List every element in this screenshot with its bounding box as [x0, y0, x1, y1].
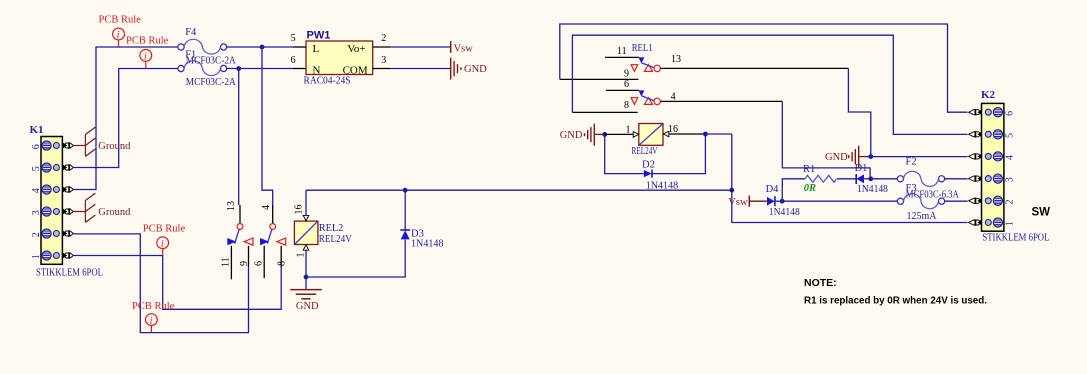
svg-text:8: 8: [624, 100, 629, 111]
REL1 contact 1 (pins 11-13-9): [560, 57, 661, 79]
svg-text:D4: D4: [766, 184, 780, 195]
REL2 pin 1: [303, 245, 309, 278]
K2 pin 4 arrow: [969, 153, 982, 159]
REL2 contact1 pin 11 stub: [230, 246, 232, 279]
svg-text:6: 6: [624, 79, 629, 90]
svg-text:PW1: PW1: [307, 30, 331, 42]
svg-text:i: i: [150, 316, 153, 327]
REL2 contact2 pin 6 stub: [263, 246, 265, 278]
svg-text:5: 5: [1005, 133, 1016, 138]
PW1 pin 2 (Vo+): [373, 46, 390, 48]
svg-text:Vsw: Vsw: [454, 43, 474, 54]
svg-text:F2: F2: [906, 156, 917, 167]
svg-text:D1: D1: [855, 163, 868, 174]
svg-text:REL24V: REL24V: [319, 234, 352, 245]
wire Vsw vertical (REL1 pin16 to K2 pin1): [732, 134, 968, 223]
REL2 contact 2 (pins 4-6-8): [260, 205, 286, 245]
svg-text:3: 3: [31, 210, 42, 215]
svg-text:8: 8: [277, 261, 288, 266]
svg-text:L: L: [313, 43, 320, 55]
svg-text:Ground: Ground: [98, 207, 131, 218]
relay coil REL1 body: [639, 124, 663, 146]
svg-text:GND: GND: [825, 152, 848, 163]
svg-text:NOTE:: NOTE:: [804, 277, 837, 289]
connector K1 body: [41, 137, 62, 265]
wire net L down to REL2 contact 2 common pin 4: [262, 47, 273, 205]
svg-text:1: 1: [31, 254, 42, 259]
power module PW1 body: [306, 41, 373, 75]
power port Vsw (at D4): [728, 196, 767, 208]
svg-text:i: i: [161, 239, 164, 250]
svg-text:6: 6: [31, 144, 42, 149]
svg-text:STIKKLEM 6POL: STIKKLEM 6POL: [36, 268, 103, 279]
resistor R1: [805, 175, 836, 182]
K1 pin 1 arrow: [63, 252, 73, 258]
svg-text:5: 5: [291, 33, 296, 44]
power port GND (left of REL1 coil): [560, 124, 605, 146]
svg-text:Ground: Ground: [98, 141, 131, 152]
junction at REL1 pin 1: [602, 132, 607, 137]
junction at D4 cathode: [780, 199, 785, 204]
PW1 pin 3 (COM): [373, 68, 390, 70]
power port GND at PW1: [451, 58, 461, 80]
junction at D3 top on Vsw net: [403, 188, 408, 193]
svg-text:9: 9: [624, 69, 629, 80]
wire F1 to PW1 pin 6: [226, 68, 293, 70]
fuse F2: [897, 171, 944, 186]
PCB Rule directive 2: [126, 36, 169, 68]
wire F2 to K2 pin 3: [944, 178, 967, 180]
K2 pin numbers: [1005, 111, 1016, 226]
svg-text:F4: F4: [185, 27, 197, 38]
svg-text:3: 3: [1005, 177, 1016, 182]
K2 pin 2 arrow: [969, 198, 982, 204]
svg-text:REL24V: REL24V: [632, 146, 658, 157]
svg-text:i: i: [117, 30, 120, 41]
junction Vsw vertical x horizontal: [729, 188, 734, 193]
wire R1 to D1: [837, 178, 856, 180]
K2 screw terminal circles: [985, 108, 1002, 117]
wire K1 pin1 to REL2 contact pin 8: [74, 256, 282, 310]
power port Vsw (top): [451, 41, 474, 54]
wire D1 junction to F2: [871, 178, 898, 180]
svg-text:R1: R1: [803, 164, 815, 175]
svg-text:1N4148: 1N4148: [769, 207, 800, 218]
svg-text:SW: SW: [1032, 207, 1051, 219]
wire Vsw net horizontal (REL2 pin16 to right): [306, 189, 732, 191]
svg-text:PCB Rule: PCB Rule: [143, 224, 186, 235]
diode D2: [644, 170, 652, 178]
svg-text:13: 13: [226, 201, 237, 211]
wire K1 pin2 to REL2 contact pin 9: [74, 234, 249, 333]
wire REL1 pin16 junction to Vsw vertical: [705, 133, 731, 135]
svg-text:MCF03C-2A: MCF03C-2A: [186, 56, 236, 67]
K2 pin 1 arrow: [969, 219, 982, 225]
ground symbol GND below REL2: [290, 277, 322, 312]
wire net N down to REL2 contact 1 common pin 13: [238, 69, 240, 206]
svg-text:GND: GND: [560, 130, 583, 141]
svg-text:COM: COM: [343, 64, 368, 76]
svg-text:13: 13: [671, 54, 681, 65]
svg-text:MCF03C-2A: MCF03C-2A: [186, 77, 236, 88]
relay coil REL2 body: [294, 221, 318, 244]
K1 pin 5 arrow: [63, 164, 73, 170]
K2 pin 5 arrow: [969, 131, 982, 137]
svg-text:i: i: [144, 52, 147, 63]
svg-text:1N4148: 1N4148: [646, 181, 679, 192]
wire PW1 pin2 to Vsw port: [390, 46, 451, 48]
svg-text:4: 4: [31, 188, 42, 193]
wire F3 to K2 pin 2: [944, 200, 967, 202]
svg-text:R1 is replaced by 0R when 24V: R1 is replaced by 0R when 24V is used.: [804, 295, 987, 306]
K1 pin 4 arrow: [63, 186, 73, 192]
svg-text:K1: K1: [30, 124, 44, 136]
wire GND junction to K2 pin 4: [871, 156, 968, 158]
wire REL1 pin13 staircase to GND junction: [848, 68, 870, 154]
fuse F1: [178, 61, 227, 76]
wire D4 junction up to R1 row: [782, 179, 805, 201]
svg-text:16: 16: [668, 124, 678, 135]
svg-text:1: 1: [626, 124, 631, 135]
K1 screw terminal circles: [42, 141, 59, 150]
wire PW1 pin3 to GND port: [390, 68, 451, 70]
REL2 contact2 pin 8 stub: [280, 246, 282, 267]
svg-text:STIKKLEM 6POL: STIKKLEM 6POL: [982, 233, 1049, 244]
wire REL1 pin4 detour to D1 junction: [782, 101, 870, 179]
PW1 pin 6 (N): [293, 68, 306, 70]
diode D1: [856, 174, 871, 184]
junction on net N: [236, 66, 241, 71]
K2 pin 6 arrow: [969, 109, 982, 115]
svg-text:6: 6: [291, 55, 296, 66]
svg-text:GND: GND: [464, 64, 487, 75]
svg-text:N: N: [313, 64, 321, 76]
K1 pin 3 arrow: [63, 208, 73, 214]
REL1 contact 2 (pins 6-4-8): [572, 90, 660, 112]
svg-text:RAC04-24S: RAC04-24S: [304, 75, 351, 86]
fuse F3: [897, 194, 944, 209]
REL1 contact2 pin 4 wire: [660, 100, 782, 102]
REL1 coil pin 16: [663, 131, 705, 137]
K2 pin 3 arrow: [969, 175, 982, 181]
PCB Rule directive 1: [99, 14, 142, 46]
svg-text:4: 4: [261, 205, 272, 210]
svg-text:1: 1: [1005, 221, 1016, 226]
svg-text:11: 11: [617, 46, 627, 57]
svg-text:K2: K2: [981, 89, 996, 101]
svg-text:Vsw: Vsw: [728, 197, 748, 208]
diode D3: [400, 190, 410, 239]
power port GND (right, near D1): [825, 146, 871, 168]
svg-text:2: 2: [1005, 200, 1016, 205]
svg-text:6: 6: [253, 261, 264, 266]
wire D2 left branch: [605, 134, 644, 173]
wire REL2 pin1 to D3 bottom: [306, 240, 405, 277]
ground symbol at K1 pin 6: [74, 127, 96, 156]
junction at REL1 pin 16: [703, 132, 708, 137]
junction GND net: [868, 154, 873, 159]
connector K2 body: [982, 103, 1004, 231]
wire D4 junction to F3: [782, 200, 898, 202]
fuse F4: [178, 39, 227, 54]
svg-text:Vo+: Vo+: [347, 43, 365, 55]
svg-text:2: 2: [31, 232, 42, 237]
REL2 pin 16: [303, 190, 309, 221]
ground symbol at K1 pin 3: [74, 193, 96, 222]
svg-text:1N4148: 1N4148: [857, 184, 888, 195]
svg-text:4: 4: [671, 91, 676, 102]
PW1 pin 5 (L): [293, 46, 306, 48]
svg-text:REL2: REL2: [319, 223, 344, 234]
svg-text:5: 5: [31, 166, 42, 171]
REL1 contact1 pin 13 wire: [660, 67, 848, 69]
svg-text:16: 16: [294, 205, 305, 215]
svg-text:PCB Rule: PCB Rule: [126, 36, 169, 47]
svg-text:MCF03C-6.3A: MCF03C-6.3A: [906, 190, 959, 201]
wire K1 pin4 to F4 (net L): [74, 47, 179, 190]
svg-text:0R: 0R: [804, 183, 816, 194]
wire REL1 pin9 to K2 pin6 (top long net): [560, 24, 968, 112]
REL2 contact 1 (pins 13-11-9): [227, 205, 253, 245]
wire REL1 pin8 to K2 pin5: [572, 35, 967, 134]
K1 pin 2 arrow: [63, 230, 73, 236]
svg-text:GND: GND: [296, 301, 319, 312]
svg-text:1: 1: [296, 253, 307, 258]
REL1 coil pin 1: [605, 132, 639, 138]
junction at REL2 pin1 / ground: [304, 275, 309, 280]
svg-text:PCB Rule: PCB Rule: [99, 14, 142, 25]
junction D1 / F2 net: [868, 176, 873, 181]
svg-text:3: 3: [381, 55, 386, 66]
K1 pin numbers: [31, 144, 42, 259]
K1 pin 6 arrow: [63, 142, 73, 148]
svg-text:REL1: REL1: [632, 43, 653, 54]
svg-text:6: 6: [1005, 111, 1016, 116]
REL2 contact1 pin 9 stub: [248, 246, 250, 267]
svg-text:1N4148: 1N4148: [411, 238, 444, 249]
svg-text:4: 4: [1005, 155, 1016, 160]
PCB Rule directive 3: [143, 224, 186, 256]
junction on net L: [260, 45, 265, 50]
wire K1 pin5 to F1 (net N): [74, 69, 179, 168]
svg-text:PCB Rule: PCB Rule: [132, 301, 175, 312]
svg-text:D2: D2: [642, 160, 655, 171]
svg-text:2: 2: [381, 33, 386, 44]
wire F4 to PW1 pin 5: [226, 46, 293, 48]
diode D4: [767, 196, 782, 206]
wire D2 right branch: [652, 134, 705, 174]
svg-text:9: 9: [239, 261, 250, 266]
svg-text:11: 11: [221, 257, 232, 267]
svg-text:125mA: 125mA: [907, 211, 937, 222]
PCB Rule directive 4: [132, 301, 175, 332]
